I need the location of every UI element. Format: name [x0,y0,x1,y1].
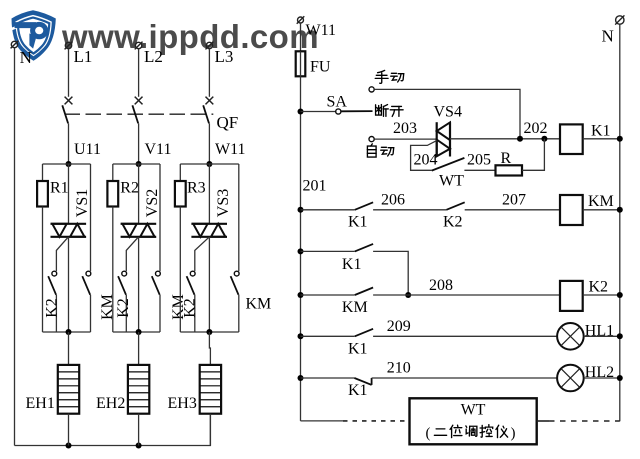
label position 断开 [376,105,389,117]
contactor coil KM [560,195,583,225]
breaker QF pole L3 [203,97,213,124]
wire HL2 to N [584,377,620,379]
resistor R [496,165,523,175]
wire K2 coil to N [583,294,620,296]
wire group3 bottom rail [180,331,239,333]
junction rail-KM row [298,207,304,213]
wire group3 top rail [180,163,239,165]
wire R1 branch lower [42,207,44,333]
svg-text:R2: R2 [120,180,139,197]
wire node 208 [373,294,560,296]
contact KM phase2 [152,164,161,332]
svg-text:VS2: VS2 [144,189,161,217]
contact K1 (KM row) [355,202,373,210]
wire node 210 [372,377,557,379]
junction group2 bottom [136,329,142,335]
selector position 手动 circle [369,87,374,92]
contact K2 phase2 [118,271,127,332]
wire L2 drop [138,49,140,97]
heater EH1 [58,365,79,414]
wire heater EH2 to bus [138,414,140,446]
contact KM phase1 [82,164,91,332]
junction rail-selfhold row [298,248,304,254]
svg-text:K1: K1 [348,214,368,231]
wire HL2 row left [301,377,355,379]
svg-text:K1: K1 [348,382,368,399]
breaker QF pole L2 [132,97,142,124]
selector switch SA [301,109,373,114]
selector position 自动 circle [369,137,374,142]
svg-text:HL1: HL1 [585,323,614,340]
junction bus-EH2 [136,443,142,449]
wire VS3 gate [195,237,209,271]
junction group1 bottom [66,329,72,335]
contact KM (K2 row) [355,288,373,296]
wire R2 branch lower [112,207,114,333]
wire W11 to fuse [300,23,302,51]
resistor R2 [107,181,118,207]
svg-text:N: N [602,27,614,46]
svg-text:K2: K2 [443,214,463,231]
junction 202 gate-R [541,136,547,142]
terminal W11 top [297,16,305,24]
relay coil K2 [560,281,583,311]
junction 202 manual [517,136,523,142]
node V11 junction [136,161,142,167]
fuse FU [296,51,306,76]
svg-text:): ) [511,426,516,442]
wire L3 drop [208,49,210,97]
svg-text:KM: KM [246,296,272,313]
dashed link rail-WT [343,420,410,422]
wire group1 top rail [43,163,91,165]
junction N-K1 [617,136,623,142]
svg-text:203: 203 [393,120,417,137]
svg-text:L3: L3 [215,47,234,66]
wire pole to node V11 [138,123,140,164]
wire VS4 to node 202 [450,138,560,140]
junction group3 bottom [206,329,212,335]
wire R3 branch lower [179,207,181,333]
svg-text:VS1: VS1 [74,189,91,217]
svg-text:R1: R1 [50,180,69,197]
terminal L2 [135,42,143,50]
terminal N right [615,15,624,24]
contact K1 NC (HL2 row) [354,378,371,385]
wire bottom bus [15,414,211,446]
wire N rail left [14,48,16,446]
junction N-HL2 [617,375,623,381]
wire KM row left [301,209,355,211]
svg-text:WT: WT [439,173,464,190]
contact K1 (HL1 row) [355,329,373,337]
svg-text:207: 207 [502,192,526,209]
svg-text:201: 201 [303,178,327,195]
wire R2 branch upper [112,164,114,181]
svg-text:K2: K2 [43,298,60,318]
junction rail-HL2 row [298,375,304,381]
svg-text:K1: K1 [342,256,362,273]
svg-text:VS4: VS4 [434,104,462,121]
wire selfhold left [301,250,355,252]
wire VS2 gate [126,237,138,271]
contact K2 (KM row) [446,202,464,210]
junction rail-HL1 row [298,333,304,339]
svg-text:K2: K2 [115,298,132,318]
wire group2 bottom rail [113,331,160,333]
wire selfhold to K2 row [373,251,408,295]
svg-text:206: 206 [381,192,405,209]
wire to heater EH1 [68,332,70,365]
wire R1 branch upper [42,164,44,181]
svg-text:K2: K2 [181,298,198,318]
junction N-K2 [617,292,623,298]
watermark logo shield [6,10,56,61]
junction rail-K2 row [298,292,304,298]
wire node 209 [373,335,557,337]
circuit breaker QF dashed linkage [65,113,214,115]
contact K2 phase3 [187,271,196,332]
wire left rail 201 [300,76,302,421]
svg-text:K2: K2 [589,279,609,296]
svg-text:R3: R3 [187,180,206,197]
wire to heater EH2 [138,332,140,365]
svg-text:205: 205 [467,152,491,169]
svg-text:R: R [501,150,512,167]
junction N-HL1 [617,333,623,339]
triac VS3 [191,164,227,332]
wire group2 top rail [113,163,160,165]
wire to heater EH3 [209,332,210,365]
svg-text:K1: K1 [348,341,368,358]
wire HL1 to N [584,335,620,337]
svg-text:KM: KM [99,294,116,320]
dashed link WT-N [537,420,549,422]
wire R to node 202 [522,139,544,171]
svg-text:VS3: VS3 [215,189,232,217]
terminal L1 [65,42,73,50]
svg-text:V11: V11 [145,141,172,158]
svg-text:SA: SA [327,94,348,111]
svg-text:EH3: EH3 [168,395,197,412]
svg-text:L2: L2 [144,47,163,66]
wire pole to node W11 [208,123,210,164]
heater EH3 [200,365,221,414]
contact KM phase3 [231,164,240,332]
thermostat contact WT [432,158,465,171]
label position 手动 [375,70,388,83]
triac VS2 [121,164,157,332]
wire node 205 [464,169,495,171]
contact K1 selfhold [355,244,373,252]
svg-text:FU: FU [310,59,331,76]
controller box WT [410,398,537,444]
svg-text:QF: QF [217,113,239,132]
wire pole to node U11 [68,123,70,164]
svg-text:K1: K1 [591,123,611,140]
wire L1 drop [68,49,70,97]
triac VS4 [437,122,450,156]
wire node 207 [465,209,560,211]
svg-text:204: 204 [414,152,438,169]
svg-text:EH1: EH1 [26,395,55,412]
resistor R1 [37,181,48,207]
svg-text:208: 208 [429,277,453,294]
svg-text:www.ippdd.com: www.ippdd.com [61,18,319,55]
junction 208 [405,292,411,298]
wire 手动 to node 202 [374,89,520,138]
wire heater EH1 to bus [68,414,70,446]
wire VS4 gate node 204 [411,141,437,171]
heater EH2 [128,365,149,414]
wire K1 coil to N [583,138,620,140]
svg-text:U11: U11 [74,141,101,158]
lamp HL2 [557,365,584,392]
svg-text:W11: W11 [215,141,246,158]
svg-text:KM: KM [588,193,614,210]
junction bus-EH1 [66,443,72,449]
node U11 junction [66,161,72,167]
svg-text:L1: L1 [74,47,93,66]
wire node 206 [373,209,446,211]
wire rail to WT link [301,420,344,422]
svg-text:HL2: HL2 [585,364,614,381]
wire HL1 row left [301,335,355,337]
relay coil K1 [560,124,583,154]
svg-text:W11: W11 [306,22,337,39]
svg-text:209: 209 [387,318,411,335]
terminal N left [11,41,19,49]
resistor R3 [175,181,186,207]
wire K2 row left [301,294,355,296]
svg-text:EH2: EH2 [96,395,125,412]
wire VS1 gate [56,237,68,271]
svg-text:WT: WT [461,402,486,419]
svg-text:210: 210 [387,360,411,377]
svg-text:KM: KM [342,299,368,316]
wire group1 bottom rail [43,331,91,333]
wire R3 branch upper [179,164,181,181]
lamp HL1 [557,323,584,350]
node W11 junction [206,161,212,167]
svg-text:202: 202 [524,120,548,137]
svg-text:(: ( [426,426,431,442]
triac VS1 [51,164,87,332]
junction SA tap [298,109,304,115]
wire KM coil to N [583,209,620,211]
label position 自动 [367,144,376,157]
breaker QF pole L1 [62,97,72,124]
wire node 203 [374,138,436,140]
wire N rail right [619,25,621,422]
contact K2 phase1 [48,271,56,332]
junction N-KM [617,207,623,213]
wire heater EH3 to bus [209,414,211,446]
terminal L3 [205,42,213,50]
svg-text:N: N [20,48,32,67]
